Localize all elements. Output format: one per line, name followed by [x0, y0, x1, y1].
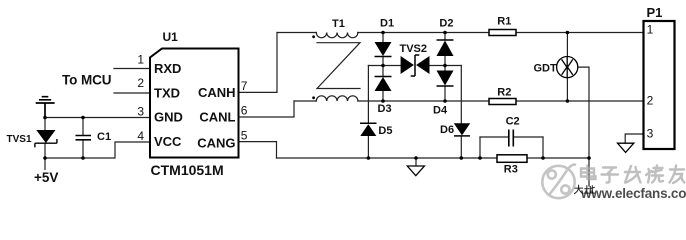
svg-text:3: 3 — [647, 126, 654, 140]
svg-text:TVS2: TVS2 — [400, 43, 428, 55]
svg-text:D3: D3 — [378, 103, 392, 115]
svg-text:D6: D6 — [440, 124, 454, 136]
svg-text:C2: C2 — [506, 115, 520, 127]
svg-text:TVS1: TVS1 — [7, 134, 32, 145]
svg-text:1: 1 — [647, 23, 654, 37]
svg-text:D1: D1 — [380, 18, 394, 30]
svg-text:CTM1051M: CTM1051M — [151, 162, 224, 178]
svg-text:P1: P1 — [647, 5, 663, 20]
svg-text:RXD: RXD — [154, 61, 181, 76]
svg-text:D2: D2 — [439, 18, 453, 30]
svg-text:T1: T1 — [332, 18, 345, 30]
svg-text:CANH: CANH — [198, 85, 236, 100]
svg-text:To MCU: To MCU — [62, 73, 111, 88]
svg-text:D5: D5 — [378, 125, 392, 137]
svg-text:GND: GND — [154, 110, 183, 125]
svg-text:U1: U1 — [163, 30, 179, 44]
svg-text:C1: C1 — [97, 131, 111, 143]
svg-text:VCC: VCC — [154, 134, 182, 149]
svg-text:www.elecfans.com: www.elecfans.com — [580, 186, 686, 201]
svg-text:R1: R1 — [497, 15, 511, 27]
svg-text:2: 2 — [647, 94, 654, 108]
svg-text:D4: D4 — [433, 105, 448, 117]
svg-text:CANG: CANG — [197, 136, 235, 151]
svg-text:7: 7 — [241, 79, 248, 93]
svg-text:GDT: GDT — [534, 63, 558, 75]
svg-text:3: 3 — [137, 104, 144, 118]
svg-text:6: 6 — [241, 104, 248, 118]
svg-text:R3: R3 — [504, 163, 518, 175]
svg-text:TXD: TXD — [154, 85, 180, 100]
svg-text:1: 1 — [137, 52, 144, 66]
svg-text:R2: R2 — [497, 87, 511, 99]
svg-text:5: 5 — [241, 128, 248, 142]
svg-text:2: 2 — [137, 76, 144, 90]
svg-text:+5V: +5V — [34, 170, 58, 185]
svg-text:CANL: CANL — [199, 110, 235, 125]
svg-text:4: 4 — [137, 129, 144, 143]
